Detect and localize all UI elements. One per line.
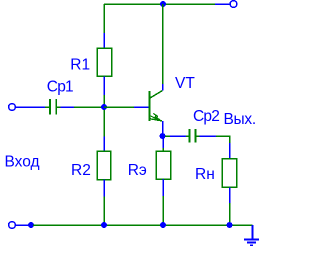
wire emitter node to Cp2 (165, 135, 170, 137)
wire Rн to bottom rail (229, 203, 231, 225)
pin Cp2 right blue (200, 135, 217, 137)
wire R1 branch down from rail (103, 4, 105, 33)
transistor VT (150, 91, 163, 122)
wire bottom left blue (16, 224, 29, 226)
wire R2 to bottom rail (103, 197, 105, 226)
svg-text:R1: R1 (70, 57, 90, 74)
svg-text:VT: VT (175, 75, 195, 92)
svg-text:Cp2: Cp2 (193, 108, 219, 125)
pin R2 bottom (103, 180, 105, 197)
wire Cp1 to base node (74, 106, 103, 108)
wire input blue (16, 106, 45, 108)
terminal top right (230, 1, 237, 8)
pin Cp2 left blue (170, 135, 186, 137)
svg-text:Rэ: Rэ (128, 162, 147, 179)
wire R1 bottom to base node (103, 95, 105, 105)
pin Rэ bottom (162, 179, 164, 196)
wire collector to rail (162, 4, 164, 84)
resistor Rн (222, 159, 237, 188)
wire bottom rail green (33, 224, 253, 226)
pin R1 top (103, 33, 105, 48)
pin collector blue (162, 84, 164, 91)
svg-text:Cp1: Cp1 (47, 78, 73, 95)
pin Rн top blue (229, 143, 231, 159)
resistor R2 (97, 151, 110, 179)
wire top rail green (104, 3, 215, 5)
ground (244, 225, 259, 245)
node Rн-rail junction (227, 222, 233, 228)
svg-text:R2: R2 (71, 162, 91, 179)
svg-text:Rн: Rн (195, 166, 215, 183)
wire output corner down (229, 135, 231, 143)
node emitter junction (160, 133, 166, 139)
svg-text:Вход: Вход (5, 154, 40, 171)
node collector-rail junction (160, 1, 166, 7)
pin emitter node down blue (162, 138, 164, 148)
pin R2 top (103, 137, 105, 152)
capacitor Cp1 (45, 99, 60, 115)
node R2-rail junction (101, 222, 107, 228)
capacitor Cp2 (186, 129, 200, 143)
wire R2 branch down (103, 110, 105, 137)
pin Rн bottom blue (229, 187, 231, 203)
terminal input (9, 104, 16, 111)
pin emitter blue (162, 121, 164, 134)
wire base node to transistor (104, 106, 134, 108)
pin base blue (134, 106, 149, 108)
wire Rэ to bottom rail (162, 196, 164, 225)
terminal bottom left (9, 222, 16, 229)
pin Cp1 right blue (61, 106, 75, 108)
resistor R1 (97, 48, 111, 76)
resistor Rэ (156, 151, 170, 179)
node base junction (101, 104, 107, 110)
wire to Re top (162, 148, 164, 151)
node bottom left junction (28, 222, 34, 228)
pin R1 bottom (103, 76, 105, 95)
svg-text:Вых.: Вых. (224, 111, 256, 128)
wire top rail blue segment to terminal (215, 3, 230, 5)
node Rэ-rail junction (160, 222, 166, 228)
wire Cp2 to output corner (216, 135, 230, 137)
